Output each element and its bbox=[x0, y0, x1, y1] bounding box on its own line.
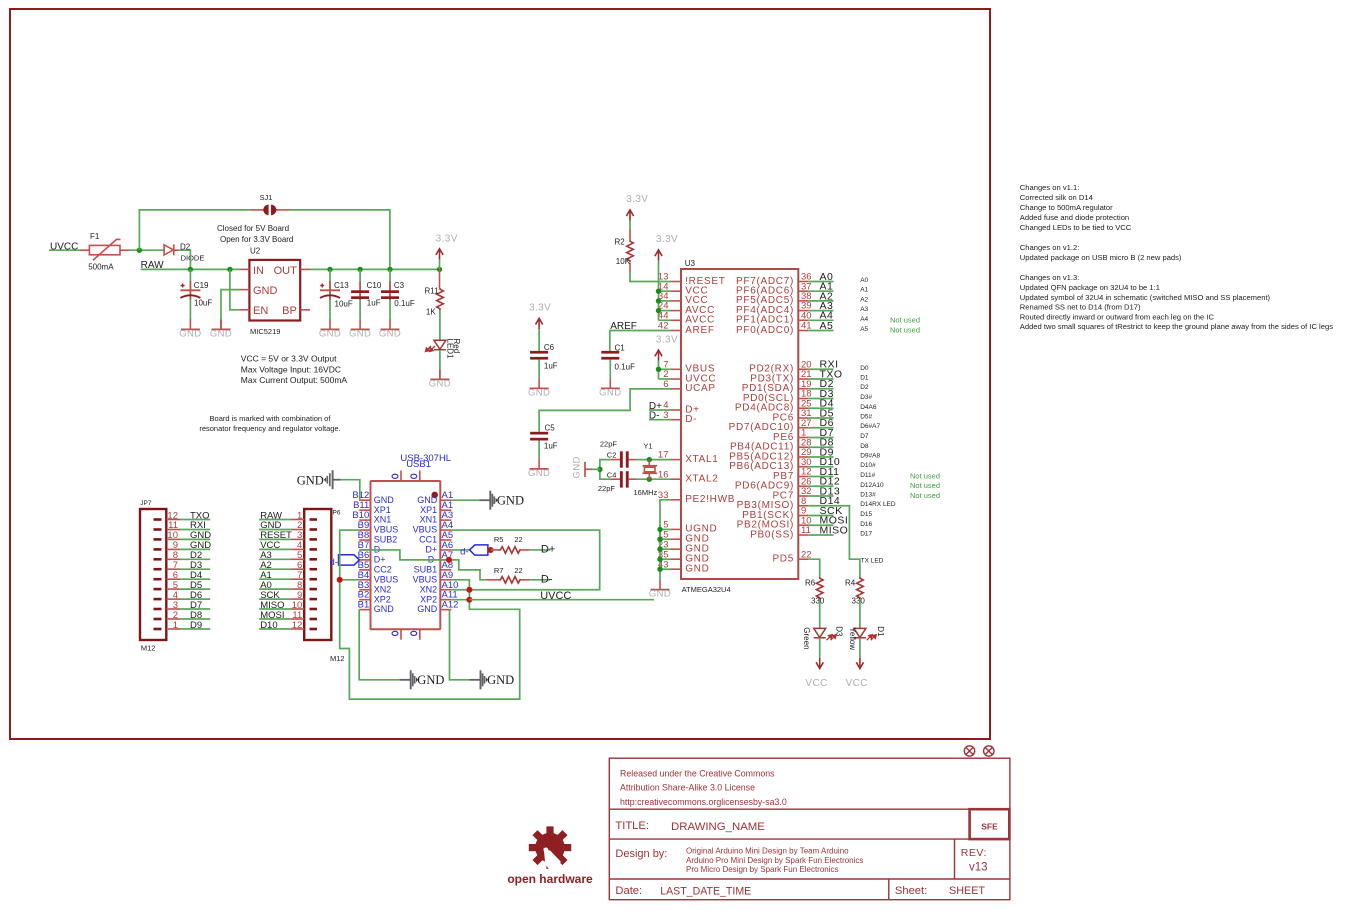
wire PE2 HWB bbox=[660, 500, 671, 580]
wire AREF bbox=[610, 331, 671, 351]
wire SJ1 riser bbox=[139, 210, 250, 250]
svg-text:PE2!HWB: PE2!HWB bbox=[685, 494, 735, 505]
U3 pin 7 VBUS bbox=[663, 359, 715, 374]
svg-text:GND: GND bbox=[497, 494, 524, 508]
svg-text:CC2: CC2 bbox=[374, 565, 392, 575]
svg-text:D16: D16 bbox=[860, 521, 872, 528]
svg-text:C1: C1 bbox=[615, 343, 626, 352]
JP7 pin 11 RXI bbox=[154, 520, 211, 531]
U3 pin 41 PF0(ADC0) net A5 bbox=[736, 320, 920, 336]
svg-text:Changes on v1.1:: Changes on v1.1: bbox=[1020, 183, 1080, 192]
svg-text:R7: R7 bbox=[494, 566, 504, 575]
svg-text:D+: D+ bbox=[374, 555, 386, 565]
wire C19 leads bbox=[189, 269, 191, 319]
U3 pin 4 D+ bbox=[663, 400, 699, 415]
U3 pin 16 XTAL2 bbox=[658, 469, 719, 484]
svg-text:1: 1 bbox=[173, 620, 178, 631]
header JP7 bbox=[140, 500, 166, 653]
svg-text:D-: D- bbox=[541, 574, 553, 586]
wire VCC branch 14 bbox=[659, 290, 672, 292]
title row text bbox=[615, 820, 765, 833]
wire U2 GND pin bbox=[221, 290, 240, 320]
junction UVCC/SJ1 bbox=[137, 248, 142, 253]
svg-text:Red: Red bbox=[452, 339, 461, 354]
P6 pin 7 A1 bbox=[259, 570, 317, 581]
svg-text:GND: GND bbox=[253, 285, 278, 297]
USB1 pin A10 XN2 bbox=[420, 580, 459, 595]
P6 pin 9 SCK bbox=[259, 590, 317, 601]
wire C6 to GND bbox=[538, 360, 540, 379]
wire LED D1 to VCC bbox=[859, 638, 861, 658]
supply VCC D1 bbox=[846, 658, 868, 689]
svg-text:Pro Micro Design by Spark Fun: Pro Micro Design by Spark Fun Electronic… bbox=[686, 865, 839, 874]
U3 pin 1 PE6 net D7 bbox=[773, 427, 869, 443]
junction UGND bbox=[657, 527, 662, 532]
svg-text:d-: d- bbox=[330, 557, 338, 568]
svg-text:GND: GND bbox=[429, 378, 451, 389]
svg-text:TITLE:: TITLE: bbox=[615, 820, 649, 832]
svg-text:C3: C3 bbox=[394, 281, 405, 290]
P6 pin 11 MOSI bbox=[259, 610, 317, 621]
wire GND branch 15 bbox=[660, 538, 671, 540]
wire RAW net bbox=[141, 268, 240, 270]
USB1 mounting pad bottom 1 bbox=[392, 629, 401, 640]
svg-text:VCC: VCC bbox=[846, 678, 868, 689]
note board marking bbox=[199, 414, 340, 433]
svg-text:Routed directly inward or outw: Routed directly inward or outward from e… bbox=[1020, 312, 1215, 321]
U3 pin 5 UGND bbox=[663, 520, 717, 535]
U3 pin 2 UVCC bbox=[663, 369, 716, 384]
ground GND LED1 bbox=[429, 369, 451, 389]
supply 3.3V VCC pins bbox=[655, 234, 678, 320]
wire R6 to LED D3 bbox=[819, 599, 821, 628]
svg-text:TX LED: TX LED bbox=[861, 558, 884, 565]
SFE logo box bbox=[970, 809, 1010, 839]
svg-text:11: 11 bbox=[801, 525, 811, 536]
svg-text:USB1: USB1 bbox=[406, 459, 431, 470]
LED LED1 Red bbox=[426, 339, 462, 360]
svg-text:PF0(ADC0): PF0(ADC0) bbox=[736, 325, 794, 336]
svg-text:D8: D8 bbox=[860, 443, 869, 450]
svg-text:GND: GND bbox=[319, 328, 341, 339]
svg-text:10uF: 10uF bbox=[335, 299, 353, 308]
U3 pin 13 !RESET bbox=[658, 272, 726, 287]
wire to crystal GND bbox=[592, 468, 600, 470]
JP7 pin 4 D6 bbox=[154, 590, 211, 601]
svg-text:U2: U2 bbox=[250, 246, 261, 255]
wire R2 to RESET bbox=[630, 272, 671, 282]
svg-text:D1: D1 bbox=[876, 626, 885, 637]
svg-text:0.1uF: 0.1uF bbox=[394, 299, 415, 308]
svg-text:10uF: 10uF bbox=[194, 299, 212, 308]
svg-text:C5: C5 bbox=[545, 424, 556, 433]
svg-text:VBUS: VBUS bbox=[374, 574, 399, 584]
svg-text:MISO: MISO bbox=[820, 524, 849, 536]
capacitor C19 bbox=[180, 281, 212, 308]
USB1 pin A3 XN1 bbox=[420, 510, 453, 525]
wire A1 to GND bbox=[451, 499, 479, 501]
svg-text:OUT: OUT bbox=[274, 265, 298, 277]
supply 3.3V R2 bbox=[626, 194, 648, 229]
USB1 pin A7 D- bbox=[428, 550, 453, 565]
svg-text:D15: D15 bbox=[860, 511, 872, 518]
wire GND to B12 bbox=[341, 480, 360, 501]
svg-text:Not used: Not used bbox=[910, 472, 940, 481]
wire VBUS branch bbox=[659, 368, 672, 370]
svg-text:D17: D17 bbox=[860, 531, 872, 538]
svg-text:M12: M12 bbox=[330, 654, 345, 663]
USB1 pin B9 VBUS bbox=[358, 520, 399, 535]
svg-text:EN: EN bbox=[253, 305, 268, 317]
svg-text:U3: U3 bbox=[685, 259, 696, 268]
U3 pin 38 PF5(ADC5) net A2 bbox=[736, 290, 869, 306]
ground GND C5 bbox=[528, 459, 550, 479]
wire GND branch 35 bbox=[660, 558, 671, 560]
svg-text:UCAP: UCAP bbox=[685, 383, 716, 394]
U3 pin 21 PD3(TX) net TXO bbox=[750, 368, 869, 384]
svg-text:Attribution Share-Alike 3.0 Li: Attribution Share-Alike 3.0 License bbox=[620, 782, 755, 792]
svg-text:open hardware: open hardware bbox=[507, 872, 593, 886]
P6 pin 5 A3 bbox=[259, 550, 317, 561]
svg-text:3.3V: 3.3V bbox=[656, 334, 678, 345]
svg-text:IN: IN bbox=[253, 265, 264, 277]
voltage regulator U2 bbox=[240, 246, 311, 336]
resistor R11 bbox=[425, 269, 444, 316]
solder jumper SJ1 bbox=[250, 193, 290, 215]
svg-text:GND: GND bbox=[349, 328, 371, 339]
svg-text:C10: C10 bbox=[367, 281, 382, 290]
svg-text:GND: GND bbox=[649, 589, 671, 600]
svg-text:C2: C2 bbox=[607, 450, 617, 459]
net flag d- at B6 bbox=[330, 555, 360, 568]
USB1 mounting pad bottom 2 bbox=[411, 629, 420, 640]
svg-text:A5: A5 bbox=[820, 320, 834, 332]
svg-text:3.3V: 3.3V bbox=[656, 234, 678, 245]
svg-text:Sheet:: Sheet: bbox=[895, 885, 927, 897]
svg-text:D12A10: D12A10 bbox=[860, 482, 884, 489]
svg-text:GND: GND bbox=[417, 495, 438, 505]
U3 pin 24 AVCC bbox=[658, 301, 715, 316]
wire PD5 to R6 bbox=[808, 559, 819, 577]
capacitor C5 1uF bbox=[530, 424, 558, 451]
wire and net label D+ bbox=[530, 544, 556, 556]
svg-text:resonator frequency and regula: resonator frequency and regulator voltag… bbox=[199, 424, 340, 433]
wire C1 to GND bbox=[609, 360, 611, 379]
USB1 pin B7 D- bbox=[358, 540, 384, 555]
net flag d- at A6 bbox=[451, 545, 488, 558]
wire AVCC branch 44 bbox=[659, 319, 672, 321]
svg-text:Added fuse and diode protectio: Added fuse and diode protection bbox=[1020, 213, 1129, 222]
U3 pin 10 PB2(MOSI) net MOSI bbox=[737, 515, 873, 531]
drill cross symbol 2 bbox=[984, 746, 994, 756]
svg-text:VBUS: VBUS bbox=[374, 525, 399, 535]
svg-text:D14RX LED: D14RX LED bbox=[860, 501, 896, 508]
svg-text:10K: 10K bbox=[616, 257, 631, 266]
USB1 pin 1 marker dot bbox=[431, 492, 438, 499]
USB1 pin A11 XP2 bbox=[420, 590, 458, 605]
svg-text:D10#: D10# bbox=[860, 462, 876, 469]
USB1 pin B8 SUB2 bbox=[358, 530, 398, 545]
JP7 pin 5 D5 bbox=[154, 580, 211, 591]
svg-text:XP1: XP1 bbox=[374, 505, 391, 515]
wire XTAL1 bbox=[636, 459, 671, 461]
junction GND 23 bbox=[657, 547, 662, 552]
svg-text:SJ1: SJ1 bbox=[260, 193, 273, 202]
wire A12 to GND bbox=[450, 610, 470, 680]
design by row text bbox=[615, 847, 987, 875]
svg-text:AREF: AREF bbox=[685, 325, 714, 336]
P6 pin 4 VCC bbox=[259, 540, 317, 551]
JP7 pin 6 D4 bbox=[154, 570, 211, 581]
diode D2 bbox=[164, 242, 204, 262]
supply 3.3V VBUS bbox=[655, 334, 678, 379]
U3 pin 34 VCC bbox=[658, 291, 708, 306]
junction crystal GND bbox=[597, 467, 602, 472]
junction GND 43 bbox=[657, 567, 662, 572]
capacitor C6 1uF bbox=[530, 343, 558, 371]
svg-text:GND: GND bbox=[572, 456, 583, 478]
svg-text:XTAL1: XTAL1 bbox=[685, 454, 718, 465]
svg-text:GND: GND bbox=[685, 564, 709, 575]
U3 pin 11 PB0(SS) net MISO bbox=[750, 524, 872, 540]
U3 pin 27 PD7(ADC10) net D6 bbox=[729, 417, 881, 433]
U3 pin 39 PF4(ADC4) net A3 bbox=[736, 300, 869, 316]
svg-text:F1: F1 bbox=[90, 232, 100, 241]
junction OUT/C13 bbox=[327, 267, 332, 272]
svg-text:DIODE: DIODE bbox=[181, 253, 205, 262]
U3 pin 6 UCAP bbox=[663, 379, 716, 394]
USB1 mounting pad top 2 bbox=[411, 471, 420, 482]
svg-text:Changes on v1.2:: Changes on v1.2: bbox=[1020, 243, 1080, 252]
svg-text:XN1: XN1 bbox=[420, 515, 438, 525]
svg-text:R6: R6 bbox=[805, 579, 816, 588]
U3 pin 42 AREF bbox=[658, 321, 715, 336]
svg-text:DRAWING_NAME: DRAWING_NAME bbox=[671, 821, 765, 833]
junction VCC 14 bbox=[656, 289, 661, 294]
svg-text:D9#A8: D9#A8 bbox=[860, 453, 880, 460]
svg-text:Added two small squares of tRe: Added two small squares of tRestrict to … bbox=[1020, 322, 1333, 331]
wire crystal caps left bbox=[600, 460, 610, 480]
USB1 mounting pad top 1 bbox=[392, 471, 401, 482]
U3 pin 36 PF7(ADC7) net A0 bbox=[736, 271, 869, 287]
svg-text:GND: GND bbox=[374, 604, 395, 614]
svg-text:GND: GND bbox=[379, 328, 401, 339]
svg-text:VCC = 5V or 3.3V Output: VCC = 5V or 3.3V Output bbox=[241, 354, 337, 364]
svg-text:C19: C19 bbox=[194, 281, 209, 290]
svg-text:C13: C13 bbox=[334, 281, 349, 290]
svg-text:LAST_DATE_TIME: LAST_DATE_TIME bbox=[660, 885, 751, 897]
svg-text:D-: D- bbox=[685, 414, 697, 425]
svg-text:Not used: Not used bbox=[910, 481, 940, 490]
USB1 pin B10 XN1 bbox=[352, 510, 391, 525]
wire D- staircase A7 to R7 bbox=[359, 550, 486, 580]
U3 pin 15 GND bbox=[658, 529, 710, 544]
junction GND 35 bbox=[657, 557, 662, 562]
svg-text:Date:: Date: bbox=[615, 885, 642, 897]
U3 pin 40 PF1(ADC1) net A4 bbox=[736, 310, 920, 326]
note VCC output bbox=[241, 354, 348, 386]
svg-text:Y1: Y1 bbox=[643, 441, 652, 450]
wire UGND branch bbox=[660, 528, 671, 530]
U3 pin 30 PB6(ADC13) net D10 bbox=[729, 456, 876, 472]
ground GND below B1 bbox=[400, 670, 445, 689]
supply 3.3V C6 bbox=[529, 302, 551, 351]
svg-text:REV:: REV: bbox=[961, 847, 987, 859]
svg-text:A5: A5 bbox=[860, 326, 868, 333]
U3 pin 19 PD1(SDA) net D2 bbox=[742, 378, 869, 394]
wire UVCC to fuse bbox=[49, 249, 81, 251]
capacitor C4 22pF bbox=[598, 470, 636, 493]
ground GND right of A1 bbox=[479, 491, 524, 510]
svg-text:Green: Green bbox=[802, 627, 811, 649]
ground GND C13 bbox=[319, 319, 341, 339]
svg-text:3.3V: 3.3V bbox=[626, 194, 648, 205]
svg-text:D4A6: D4A6 bbox=[860, 404, 877, 411]
svg-text:VBUS: VBUS bbox=[413, 525, 438, 535]
junction OUT/C3 bbox=[387, 267, 392, 272]
wire GND branch 43 bbox=[660, 568, 671, 570]
resistor R6 330 bbox=[805, 577, 825, 606]
wire XP2 A11 bbox=[451, 599, 469, 601]
wire U2 EN pin bbox=[230, 269, 240, 309]
U3 pin 22 PD5 bbox=[772, 549, 811, 564]
svg-text:SUB2: SUB2 bbox=[374, 535, 398, 545]
svg-text:v13: v13 bbox=[969, 862, 988, 874]
svg-text:Corrected silk on D14: Corrected silk on D14 bbox=[1020, 193, 1093, 202]
svg-text:SHEET: SHEET bbox=[949, 885, 985, 897]
svg-text:0.1uF: 0.1uF bbox=[615, 363, 636, 372]
svg-text:Original Arduino Mini Design b: Original Arduino Mini Design by Team Ard… bbox=[686, 847, 849, 856]
JP7 pin 8 D2 bbox=[154, 550, 211, 561]
U3 pin 37 PF6(ADC6) net A1 bbox=[736, 281, 869, 297]
U3 pin 8 PB3(MISO) net D14 bbox=[737, 495, 896, 511]
U3 pin 32 PC7 net D13 bbox=[772, 485, 940, 501]
wire XN2 A10 to VBUS A4 bbox=[451, 530, 599, 590]
svg-text:P6: P6 bbox=[333, 510, 341, 517]
USB connector USB1 bbox=[371, 453, 452, 629]
svg-text:Design by:: Design by: bbox=[615, 848, 667, 860]
U3 pin 28 PB4(ADC11) net D8 bbox=[730, 437, 869, 453]
svg-text:R11: R11 bbox=[425, 287, 440, 296]
junction OUT/C10 bbox=[357, 267, 362, 272]
ground GND U2 bbox=[210, 319, 232, 339]
wire and net label UVCC bbox=[469, 590, 654, 602]
resistor R2 10K bbox=[615, 229, 634, 272]
USB1 pin A12 GND bbox=[417, 600, 458, 615]
svg-text:C4: C4 bbox=[607, 470, 617, 479]
svg-text:SUB1: SUB1 bbox=[414, 565, 438, 575]
svg-text:A1: A1 bbox=[860, 287, 868, 294]
USB1 pin A5 CC1 bbox=[419, 530, 453, 545]
svg-text:PD5: PD5 bbox=[772, 554, 794, 565]
svg-text:M12: M12 bbox=[141, 644, 156, 653]
svg-text:Max Voltage Input: 16VDC: Max Voltage Input: 16VDC bbox=[241, 364, 341, 374]
junction D- A7 bbox=[446, 557, 452, 563]
svg-text:GND: GND bbox=[417, 604, 438, 614]
svg-text:BP: BP bbox=[282, 305, 297, 317]
junction RAW/C19 bbox=[188, 267, 193, 272]
svg-text:D10: D10 bbox=[260, 620, 277, 631]
supply 3.3V power section bbox=[436, 234, 458, 270]
ground GND C1 bbox=[599, 378, 621, 398]
svg-text:Arduino Pro Mini Design by Spa: Arduino Pro Mini Design by Spark Fun Ele… bbox=[686, 856, 863, 865]
wire C3 leads bbox=[389, 269, 391, 319]
wire diode to RAW bbox=[179, 250, 191, 269]
capacitor C2 22pF bbox=[600, 440, 636, 468]
svg-text:D+: D+ bbox=[541, 544, 555, 556]
open hardware logo gear bbox=[529, 826, 571, 873]
svg-text:GND: GND bbox=[374, 495, 395, 505]
LED D3 Green bbox=[802, 626, 843, 649]
svg-text:Yellow: Yellow bbox=[848, 627, 857, 650]
svg-text:D9: D9 bbox=[190, 620, 202, 631]
svg-text:D3: D3 bbox=[834, 626, 843, 637]
svg-text:3.3V: 3.3V bbox=[436, 234, 458, 245]
U3 pin 43 GND bbox=[658, 559, 710, 574]
U3 pin 29 PB5(ADC12) net D9 bbox=[729, 446, 880, 462]
svg-text:22pF: 22pF bbox=[600, 440, 618, 449]
svg-text:VBUS: VBUS bbox=[413, 574, 438, 584]
svg-text:GND: GND bbox=[599, 388, 621, 399]
USB1 pin B5 CC2 bbox=[358, 560, 392, 575]
JP7 pin 3 D7 bbox=[154, 600, 211, 611]
junction VBUS B4 bbox=[337, 577, 360, 583]
svg-text:R2: R2 bbox=[615, 238, 626, 247]
svg-text:D0: D0 bbox=[860, 365, 869, 372]
svg-text:XTAL2: XTAL2 bbox=[685, 474, 718, 485]
svg-text:Change to 500mA regulator: Change to 500mA regulator bbox=[1020, 203, 1113, 212]
svg-text:Not used: Not used bbox=[890, 315, 920, 324]
svg-text:22pF: 22pF bbox=[598, 484, 616, 493]
ground GND crystal rotated bbox=[572, 456, 593, 478]
svg-text:1uF: 1uF bbox=[367, 299, 381, 308]
svg-text:Changes on v1.3:: Changes on v1.3: bbox=[1020, 273, 1080, 282]
svg-text:GND: GND bbox=[528, 388, 550, 399]
JP7 pin 1 D9 bbox=[154, 620, 211, 631]
JP7 pin 7 D3 bbox=[154, 560, 211, 571]
svg-text:R5: R5 bbox=[494, 535, 504, 544]
svg-text:VCC: VCC bbox=[805, 678, 827, 689]
junction GND 15 bbox=[657, 537, 662, 542]
svg-text:UVCC: UVCC bbox=[540, 590, 571, 602]
USB1 pin A9 VBUS bbox=[413, 570, 453, 585]
svg-text:GND: GND bbox=[297, 473, 324, 487]
wire LED1 to GND bbox=[439, 350, 441, 379]
changes revision notes text bbox=[1020, 183, 1333, 331]
junction d- R5 bbox=[488, 547, 494, 553]
capacitor C1 0.1uF bbox=[601, 343, 635, 371]
svg-text:Released under the Creative Co: Released under the Creative Commons bbox=[620, 768, 775, 778]
svg-text:Renamed SS net to D14 (from D1: Renamed SS net to D14 (from D17) bbox=[1020, 303, 1141, 312]
U3 pin 33 PE2!HWB bbox=[658, 490, 735, 505]
wire UCAP to C5 bbox=[539, 389, 671, 432]
svg-text:D1: D1 bbox=[860, 375, 869, 382]
junction VCC 34 bbox=[656, 298, 661, 303]
JP7 pin 12 TXO bbox=[154, 510, 211, 521]
svg-text:GND: GND bbox=[487, 673, 514, 687]
capacitor C13 bbox=[320, 281, 353, 308]
wire R4 to LED D1 bbox=[859, 599, 861, 628]
junction A11 bbox=[466, 597, 472, 603]
P6 pin 12 D10 bbox=[259, 620, 317, 631]
P6 pin 2 GND bbox=[259, 520, 317, 531]
title block license text bbox=[620, 768, 787, 807]
svg-text:22: 22 bbox=[514, 566, 522, 575]
U3 pin 9 PB1(SCK) net SCK bbox=[742, 505, 872, 521]
svg-text:330: 330 bbox=[811, 597, 825, 606]
capacitor C10 bbox=[351, 281, 382, 308]
svg-text:GND: GND bbox=[417, 673, 444, 687]
